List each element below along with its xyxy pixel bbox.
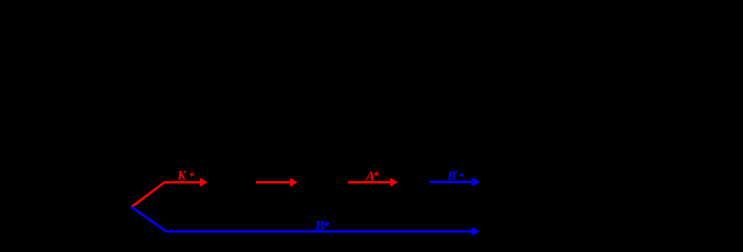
arrowhead red 3 xyxy=(390,178,398,187)
arrowhead red 2 xyxy=(290,178,298,187)
arrowhead red 1 xyxy=(200,178,208,187)
svg-text:*: * xyxy=(458,171,464,184)
svg-text:*: * xyxy=(323,218,330,233)
svg-text:*: * xyxy=(373,171,379,183)
svg-text:K: K xyxy=(177,168,188,182)
wire blue diagonal from origin xyxy=(132,207,167,231)
arrowhead blue lower xyxy=(472,227,480,236)
wire red arrow 3 xyxy=(348,181,390,183)
wire red horizontal segment 1 xyxy=(163,181,200,183)
svg-text:*: * xyxy=(189,171,195,183)
wire blue horizontal long segment xyxy=(165,230,472,232)
wire red arrow 2 xyxy=(256,181,290,183)
arrowhead blue upper xyxy=(472,178,480,187)
wire red diagonal from origin xyxy=(132,182,165,207)
wire blue arrow upper xyxy=(430,181,472,183)
